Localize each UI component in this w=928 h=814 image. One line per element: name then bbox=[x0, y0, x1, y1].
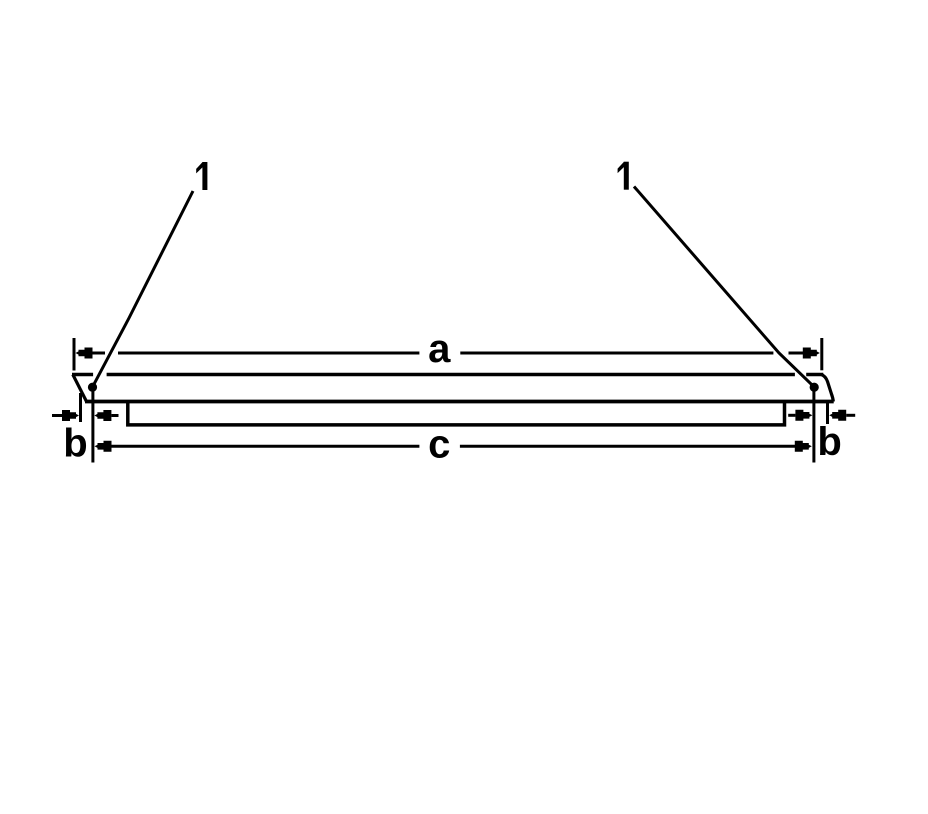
dimension a arrow (right, pointing right) bbox=[803, 348, 820, 359]
molding top edge (3 segments, gaps where leaders cross) bbox=[72, 373, 823, 377]
molding bottom edge bbox=[85, 400, 834, 404]
glass lower rectangle (left edge, bottom, right edge) bbox=[128, 402, 785, 425]
dimension b right: inner arrow shaft bbox=[788, 414, 795, 417]
dimension b right: outer arrow shaft bbox=[846, 414, 855, 417]
dimension b left: inner arrow shaft bbox=[111, 414, 118, 417]
svg-text:a: a bbox=[428, 327, 451, 371]
svg-text:c: c bbox=[428, 423, 450, 467]
dimension b right: inner arrow (pointing right) bbox=[795, 410, 812, 421]
extension line through right dot (for b and c) bbox=[812, 387, 815, 463]
dimension b left: outer arrow shaft bbox=[52, 414, 63, 417]
dimension b right: outer arrow (pointing left) bbox=[829, 410, 846, 421]
svg-text:b: b bbox=[817, 420, 841, 464]
dimension b left: inner arrow (pointing left) bbox=[94, 410, 111, 421]
molding right bevel end bbox=[821, 375, 833, 402]
callout label 1 (left) bbox=[196, 162, 207, 190]
dimension c line segments bbox=[110, 445, 419, 448]
label a bbox=[428, 327, 451, 371]
dimension c arrow (left, pointing left) bbox=[95, 441, 112, 452]
callout label 1 (right) bbox=[618, 162, 629, 190]
extension stub right (b outer) bbox=[826, 403, 829, 424]
svg-text:b: b bbox=[63, 422, 87, 466]
dimension b left: outer arrow (pointing right) bbox=[62, 410, 79, 421]
label c bbox=[428, 423, 450, 467]
dimension c arrow (right, pointing right) bbox=[795, 441, 812, 452]
dimension a extension tick (right) bbox=[820, 338, 823, 370]
leader line 1 (left) bbox=[93, 191, 194, 387]
dimension a arrow (left, pointing left) bbox=[76, 348, 93, 359]
label b (right) bbox=[817, 420, 841, 464]
leader dot (right) bbox=[810, 383, 819, 392]
extension stub left (b outer) bbox=[79, 393, 82, 422]
molding left bevel end bbox=[73, 375, 87, 402]
dimension a extension tick (left) bbox=[73, 338, 76, 371]
leader dot (left) bbox=[88, 383, 97, 392]
label b (left) bbox=[63, 422, 87, 466]
extension line through left dot (for b and c) bbox=[91, 387, 94, 463]
dimension a line segments bbox=[92, 352, 106, 355]
leader line 1 (right) bbox=[634, 187, 814, 388]
